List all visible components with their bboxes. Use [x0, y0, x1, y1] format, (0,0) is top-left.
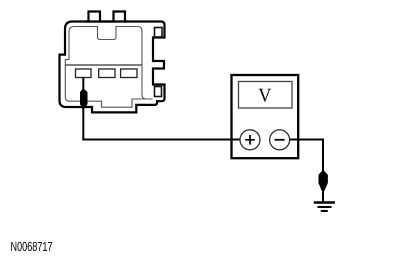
connector C1 divider line: [66, 64, 143, 66]
connector C1 pin cavity 1: [76, 69, 92, 78]
connector C1 inner shell outline: [65, 27, 152, 108]
connector C1 latch window bottom-right: [155, 87, 162, 97]
figure number label N0068717: [11, 242, 52, 251]
wire probe P1 down: [82, 108, 84, 141]
wire pin1 down to probe tip: [82, 78, 84, 91]
wire down to ground probe: [322, 139, 324, 173]
probe P1 tip at connector pin 1: [80, 90, 87, 109]
voltmeter V1 body: [232, 75, 299, 158]
connector C1 top edge under tabs: [86, 20, 127, 22]
voltmeter V1 plus sign: [245, 135, 255, 145]
wire probe P2 to ground symbol: [322, 189, 324, 203]
voltmeter V1 display label V: [259, 89, 272, 102]
connector C1 outer shell outline: [60, 12, 165, 113]
voltmeter V1 positive terminal: [240, 130, 260, 150]
voltmeter V1 negative terminal: [270, 130, 290, 150]
connector C1 pin cavity 3: [121, 69, 137, 78]
voltmeter V1 minus sign: [275, 139, 285, 141]
wire left horizontal to voltmeter + terminal: [82, 139, 240, 141]
wire voltmeter - terminal to right: [289, 139, 324, 141]
connector C1 latch window top-right: [155, 28, 163, 38]
voltmeter V1 display window: [239, 82, 293, 109]
connector C1 pin cavity 2: [99, 69, 115, 78]
probe P2 tip at ground: [319, 171, 328, 191]
ground symbol: [314, 203, 335, 212]
